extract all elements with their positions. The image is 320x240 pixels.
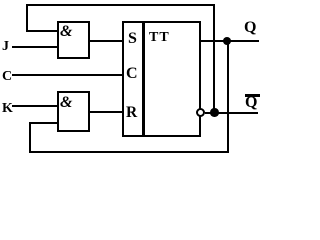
wire: Q feedback into bottom AND gate	[29, 122, 58, 124]
wire: AND1 output to S	[90, 40, 122, 42]
wire: Qbar feedback into top AND gate	[26, 30, 58, 32]
pin label C	[126, 66, 138, 82]
wire: Qbar output	[205, 112, 259, 114]
wire: C input	[12, 74, 123, 76]
AND gate 1 (top) box	[57, 21, 91, 60]
wire: Q feedback bottom-left vertical	[29, 122, 31, 154]
junction dot on Qbar line	[210, 108, 219, 117]
wire: Q feedback bottom horizontal	[29, 151, 229, 153]
AND gate 1 label &	[60, 24, 72, 40]
label Qbar overline	[245, 94, 260, 96]
label K	[2, 102, 13, 116]
wire: J input	[12, 46, 58, 48]
wire: Q output	[199, 40, 259, 42]
wire: Qbar feedback top horizontal	[26, 4, 215, 6]
AND gate 2 (bottom) box	[57, 91, 91, 132]
label TT	[149, 31, 170, 45]
inversion bubble on Qbar output	[196, 108, 205, 117]
wire: AND2 output to R	[90, 111, 122, 113]
wire: Qbar feedback left vertical	[26, 4, 28, 33]
label C	[2, 70, 12, 84]
wire: K input	[12, 105, 58, 107]
label Qbar	[245, 95, 257, 111]
AND gate 2 label &	[60, 95, 72, 111]
flip-flop divider line	[142, 21, 145, 136]
pin label R	[126, 105, 137, 121]
label J	[2, 40, 9, 54]
wire: Q feedback right vertical	[227, 40, 229, 153]
junction dot on Q line	[223, 37, 232, 46]
wire: Qbar feedback right vertical	[213, 4, 215, 113]
label Q	[244, 20, 256, 36]
flip-flop TT box	[122, 21, 201, 137]
pin label S	[128, 31, 137, 47]
